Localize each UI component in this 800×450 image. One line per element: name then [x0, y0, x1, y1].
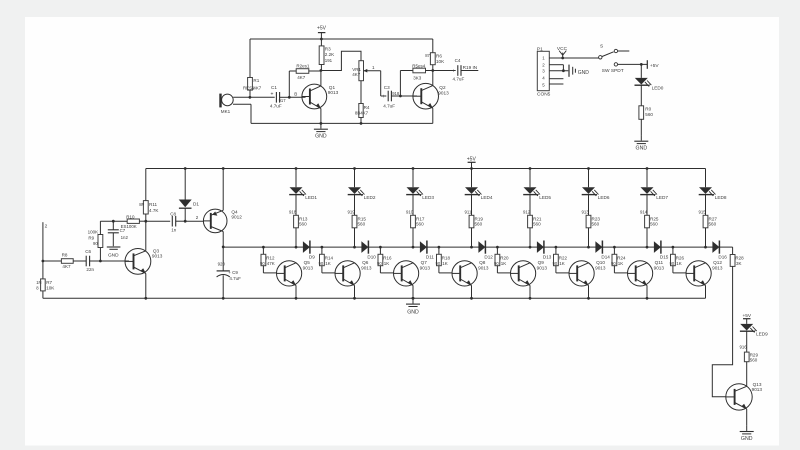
junction rail cell 2	[353, 167, 356, 170]
svg-text:C8: C8	[170, 211, 176, 216]
svg-text:100K: 100K	[88, 229, 99, 234]
resistor R12 47K	[262, 246, 265, 249]
svg-text:LED1: LED1	[305, 195, 317, 200]
svg-text:D9: D9	[309, 255, 315, 260]
svg-text:9013: 9013	[152, 254, 163, 259]
svg-text:911: 911	[465, 210, 472, 215]
svg-text:9013: 9013	[537, 265, 548, 270]
svg-text:920: 920	[218, 261, 226, 266]
power +5V marker (switch)	[646, 60, 648, 69]
wire emitter to ground rail	[471, 285, 473, 298]
wire Q4 emitter to rail	[222, 169, 224, 211]
svg-text:1K: 1K	[676, 261, 682, 266]
svg-text:C6: C6	[85, 249, 91, 254]
svg-text:90: 90	[93, 241, 98, 246]
resistor R22 47K	[555, 246, 558, 249]
svg-text:8P: 8P	[139, 202, 144, 207]
svg-text:C4: C4	[455, 58, 461, 63]
svg-text:191: 191	[325, 58, 333, 63]
svg-text:R27: R27	[709, 216, 718, 221]
transistor Q3 9013	[100, 260, 129, 262]
svg-text:919: 919	[348, 210, 356, 215]
junction collector node cell 2	[353, 246, 356, 249]
diode D11	[413, 246, 420, 248]
svg-text:90: 90	[553, 261, 558, 266]
transistor Q10 9013	[569, 261, 594, 286]
capacitor C9 4.7uF	[222, 247, 224, 271]
svg-text:1K: 1K	[618, 261, 624, 266]
wire Q1 emitter	[320, 109, 322, 124]
svg-text:9013: 9013	[361, 265, 372, 270]
capacitor C4 4.7uF output	[433, 70, 456, 72]
svg-text:90: 90	[319, 261, 324, 266]
svg-text:3K3: 3K3	[413, 76, 422, 81]
junction C1 / R2 / Q1 base	[288, 96, 291, 99]
wire emitter to ground rail	[412, 285, 414, 298]
svg-text:4.7uF: 4.7uF	[270, 104, 282, 109]
wire R28 to Q13 base	[712, 266, 732, 396]
svg-text:10K: 10K	[46, 286, 55, 291]
junction R10 / R11 / Q3 collector	[144, 220, 147, 223]
wire node segment	[486, 246, 530, 248]
junction mic / R1 / C1	[249, 96, 252, 99]
svg-text:R14: R14	[325, 256, 334, 261]
transistor Q12 9013	[686, 261, 711, 286]
wire node segment	[544, 246, 588, 248]
junction rail cell 6	[587, 167, 590, 170]
resistor R17 560	[412, 194, 414, 215]
svg-text:916: 916	[740, 344, 748, 349]
svg-text:2.2K: 2.2K	[325, 52, 335, 57]
junction collector node cell 1	[295, 246, 298, 249]
diode D9	[296, 246, 303, 248]
svg-text:3K: 3K	[736, 261, 742, 266]
svg-text:R9: R9	[88, 235, 94, 240]
resistor R9 100K	[99, 248, 101, 262]
svg-text:2: 2	[45, 223, 48, 229]
resistor R6 10K	[432, 39, 434, 53]
svg-text:VR1: VR1	[352, 67, 361, 72]
capacitor C8 1n	[146, 220, 170, 222]
svg-text:C1: C1	[271, 85, 277, 90]
svg-text:R17: R17	[416, 216, 425, 221]
svg-text:4.7uF: 4.7uF	[453, 77, 465, 82]
transistor Q8 9013	[452, 261, 477, 286]
svg-text:560: 560	[709, 222, 717, 227]
svg-text:910: 910	[406, 210, 414, 215]
transistor Q11 9013	[628, 261, 653, 286]
wire Q4 collector	[222, 232, 224, 247]
svg-text:10K: 10K	[436, 59, 445, 64]
wire Q2 emitter	[432, 108, 434, 123]
svg-text:R3: R3	[325, 46, 331, 51]
svg-text:9013: 9013	[752, 387, 763, 392]
resistor R3 2.2K	[320, 39, 322, 46]
svg-text:R2es1: R2es1	[296, 64, 310, 69]
svg-text:560: 560	[533, 222, 541, 227]
resistor R2 4K7	[288, 71, 290, 97]
svg-text:9013: 9013	[303, 265, 314, 270]
wire main +5V rail	[146, 168, 706, 170]
svg-text:560: 560	[475, 222, 483, 227]
svg-text:9013: 9013	[328, 90, 339, 95]
svg-text:R22: R22	[559, 256, 568, 261]
svg-text:918: 918	[392, 91, 400, 96]
diode D15	[647, 246, 654, 248]
wire mic return to ground rail	[250, 104, 252, 123]
svg-text:D15: D15	[660, 255, 669, 260]
wire feedback node	[100, 220, 127, 222]
svg-text:LED8: LED8	[715, 195, 727, 200]
svg-text:D10: D10	[367, 255, 376, 260]
wire D16 to R28	[720, 246, 733, 248]
capacitor C7 1n2	[112, 220, 115, 223]
junction rail cell 7	[646, 167, 649, 170]
transistor Q2 9013	[400, 95, 417, 97]
svg-text:D14: D14	[601, 255, 610, 260]
junction collector node cell 8	[704, 246, 707, 249]
svg-text:D11: D11	[426, 255, 435, 260]
resistor R27 560	[705, 194, 707, 215]
svg-text:MK1: MK1	[221, 109, 231, 114]
svg-text:90: 90	[611, 261, 616, 266]
svg-text:GND: GND	[578, 70, 590, 76]
svg-text:87: 87	[425, 53, 430, 58]
ground (main)	[412, 297, 415, 300]
LED LED2	[354, 169, 356, 188]
resistor R14 47K	[321, 246, 324, 249]
svg-text:R10: R10	[126, 214, 135, 219]
resistor R4 4K7	[360, 81, 362, 104]
resistor R11 4.7K	[145, 169, 147, 201]
svg-text:LED6: LED6	[598, 195, 610, 200]
junction R3 / Q1 collector / R2	[320, 69, 323, 72]
svg-text:9013: 9013	[595, 265, 606, 270]
resistor R13 560	[295, 194, 297, 215]
svg-text:918: 918	[289, 210, 297, 215]
junction input node	[42, 260, 45, 263]
svg-text:+ C9: + C9	[228, 270, 238, 275]
resistor R19 560	[471, 194, 473, 215]
junction R9 / Q3 base	[99, 260, 102, 263]
junction R5 / R6 / Q2 collector / C4	[431, 69, 434, 72]
svg-text:9012: 9012	[231, 215, 242, 220]
transistor Q5 9013	[277, 261, 302, 286]
svg-text:+5V: +5V	[742, 313, 751, 319]
svg-text:560: 560	[592, 222, 600, 227]
svg-text:R19 IN: R19 IN	[463, 65, 478, 70]
junction collector node cell 4	[470, 246, 473, 249]
diode D13	[530, 246, 537, 248]
svg-text:915: 915	[699, 210, 707, 215]
LED LED5	[529, 169, 531, 188]
junction rail cell 3	[412, 167, 415, 170]
junction rail cell 5	[529, 167, 532, 170]
svg-text:1N: 1N	[36, 280, 41, 285]
svg-text:LED4: LED4	[481, 195, 493, 200]
resistor R25 560	[646, 194, 648, 215]
junction C3 / R5 / Q2 base	[399, 95, 402, 98]
svg-text:1K: 1K	[384, 261, 390, 266]
svg-text:R4: R4	[364, 105, 370, 110]
svg-text:Q4: Q4	[231, 209, 238, 214]
svg-text:R26: R26	[676, 256, 685, 261]
wire emitter to ground rail	[705, 285, 707, 298]
resistor R15 560	[354, 194, 356, 215]
svg-text:9013: 9013	[654, 265, 665, 270]
wire to Q4 base, node 2	[185, 220, 203, 222]
LED LED3	[412, 169, 414, 188]
svg-text:LED7: LED7	[656, 195, 668, 200]
svg-text:GND: GND	[108, 252, 119, 258]
svg-text:+5V: +5V	[317, 26, 327, 32]
svg-text:1K: 1K	[559, 261, 565, 266]
diode D12	[472, 246, 479, 248]
wire node segment	[603, 246, 647, 248]
ground (preamp)	[320, 123, 322, 128]
resistor R7 10K	[41, 279, 46, 291]
svg-text:R18: R18	[442, 256, 451, 261]
svg-text:560: 560	[358, 222, 366, 227]
wire emitter to ground rail	[529, 285, 531, 298]
svg-text:CON5: CON5	[537, 91, 551, 97]
diode D1	[184, 167, 187, 170]
svg-text:4K7: 4K7	[297, 75, 306, 80]
svg-text:1K: 1K	[325, 261, 331, 266]
svg-text:LED9: LED9	[756, 331, 768, 336]
svg-text:+5V: +5V	[650, 63, 659, 69]
svg-text:912: 912	[523, 210, 531, 215]
svg-text:SW SPDT: SW SPDT	[602, 68, 624, 74]
svg-text:913: 913	[582, 210, 590, 215]
svg-text:9013: 9013	[712, 265, 723, 270]
transistor Q1 9013	[289, 96, 305, 98]
svg-text:GND: GND	[407, 310, 419, 316]
svg-text:4.7uF: 4.7uF	[383, 104, 395, 109]
svg-text:560: 560	[416, 222, 424, 227]
resistor R20 47K	[496, 246, 499, 249]
svg-text:1: 1	[372, 65, 375, 70]
svg-text:R11: R11	[149, 202, 158, 207]
svg-text:R6: R6	[436, 53, 442, 58]
svg-text:R12: R12	[266, 256, 275, 261]
junction collector node cell 7	[646, 246, 649, 249]
junction collector node cell 6	[587, 246, 590, 249]
svg-text:C3: C3	[384, 85, 390, 90]
diode D16	[706, 246, 713, 248]
svg-text:8B4K7: 8B4K7	[355, 111, 369, 116]
svg-text:4.7uF: 4.7uF	[229, 276, 241, 281]
svg-text:LED2: LED2	[364, 195, 376, 200]
svg-text:9013: 9013	[478, 265, 489, 270]
wire first node segment Q4 to cell 1	[223, 246, 263, 248]
svg-text:90: 90	[260, 261, 265, 266]
wire switch to +5V	[618, 63, 648, 65]
svg-text:9013: 9013	[420, 265, 431, 270]
resistor R23 560	[588, 194, 590, 215]
svg-text:GND: GND	[741, 436, 753, 442]
svg-text:1K: 1K	[442, 261, 448, 266]
svg-text:B: B	[294, 91, 297, 96]
potentiometer VR1 4K7	[359, 61, 364, 81]
svg-text:R28: R28	[735, 255, 744, 260]
svg-text:R8: R8	[62, 253, 68, 258]
svg-text:+: +	[382, 94, 385, 100]
ground (C7)	[107, 246, 121, 248]
resistor R8 4K7	[43, 260, 62, 262]
resistor R16 47K	[379, 246, 382, 249]
svg-text:R7: R7	[46, 280, 52, 285]
wire Q3 collector	[145, 221, 147, 251]
svg-text:GND: GND	[636, 146, 648, 152]
LED LED4	[471, 169, 473, 188]
svg-text:917: 917	[279, 98, 287, 103]
junction rail cell 4	[470, 167, 473, 170]
resistor R26 47K	[672, 246, 675, 249]
svg-text:GND: GND	[315, 134, 327, 140]
junction LED0 branch	[640, 63, 643, 66]
LED LED6	[588, 169, 590, 188]
resistor R0 560	[640, 85, 642, 106]
svg-text:R1: R1	[253, 78, 259, 83]
ground (Q13)	[746, 426, 748, 431]
resistor R18 47K	[438, 246, 441, 249]
wire VR1 wiper, node 1	[364, 70, 381, 72]
LED LED7	[646, 169, 648, 188]
svg-text:LED0: LED0	[652, 85, 664, 90]
svg-text:4K7: 4K7	[62, 264, 71, 269]
wire emitter to ground rail	[354, 285, 356, 298]
transistor Q7 9013	[394, 261, 419, 286]
wire main ground rail	[42, 222, 44, 298]
wire P1 pin 3	[549, 70, 568, 72]
wire node segment	[427, 246, 471, 248]
wire preamp ground rail	[251, 122, 433, 124]
svg-text:R0: R0	[645, 107, 651, 112]
ground (LED0)	[640, 135, 642, 140]
junction D1 / node 2 line	[184, 220, 187, 223]
wire preamp +5V rail	[250, 38, 433, 40]
transistor Q4 9012 (PNP)	[203, 209, 227, 233]
wire emitter to ground rail	[646, 285, 648, 298]
wire P1 pin 1	[549, 57, 598, 59]
svg-text:1K: 1K	[501, 261, 507, 266]
wire P1 pin 2	[549, 64, 563, 66]
svg-text:LED3: LED3	[422, 195, 434, 200]
resistor R21 560	[529, 194, 531, 215]
wire Q1 collector	[320, 71, 322, 86]
svg-text:R20: R20	[500, 256, 509, 261]
capacitor C1 4.7uF	[250, 96, 275, 98]
diode D14	[589, 246, 596, 248]
svg-text:R23: R23	[592, 216, 601, 221]
svg-text:560: 560	[750, 357, 758, 362]
svg-text:D16: D16	[718, 255, 727, 260]
svg-text:D1: D1	[193, 202, 199, 207]
svg-text:R25: R25	[650, 216, 659, 221]
LED LED8	[705, 169, 707, 188]
junction rail cell 1	[295, 167, 298, 170]
svg-text:4.7K: 4.7K	[149, 208, 159, 213]
svg-text:+5V: +5V	[467, 156, 477, 162]
diode D10	[355, 246, 362, 248]
svg-text:P1: P1	[537, 46, 543, 52]
wire Q3 emitter	[145, 273, 147, 298]
transistor Q9 9013	[510, 261, 535, 286]
LED LED9	[740, 324, 753, 331]
svg-text:4K7: 4K7	[352, 72, 361, 77]
wire Q2 collector	[432, 71, 434, 86]
svg-text:90: 90	[670, 261, 675, 266]
resistor R5 3K3	[399, 71, 401, 97]
svg-text:R19: R19	[475, 216, 484, 221]
wire R3 bottom to VR1 top	[321, 51, 361, 70]
junction collector node cell 3	[412, 246, 415, 249]
transistor Q6 9013	[335, 261, 360, 286]
svg-text:D12: D12	[484, 255, 493, 260]
resistor R24 47K	[613, 246, 616, 249]
power VCC marker	[561, 57, 564, 60]
transistor Q13 9013	[726, 384, 752, 410]
capacitor C3 4.7uF	[387, 91, 389, 102]
LED LED1	[295, 169, 297, 188]
microphone MK1	[219, 94, 221, 108]
svg-text:+: +	[452, 69, 455, 75]
svg-text:R15: R15	[358, 216, 367, 221]
wire node segment	[661, 246, 705, 248]
svg-text:R21: R21	[533, 216, 542, 221]
wire node segment	[369, 246, 413, 248]
svg-text:9013: 9013	[438, 90, 449, 95]
svg-text:22n: 22n	[86, 267, 94, 272]
svg-text:R24: R24	[617, 256, 626, 261]
svg-text:90: 90	[436, 261, 441, 266]
svg-text:560: 560	[299, 222, 307, 227]
svg-text:R16: R16	[383, 256, 392, 261]
svg-text:1n2: 1n2	[121, 235, 129, 240]
wire P1 pin 5	[549, 83, 563, 85]
wire Q13 emitter	[746, 409, 748, 426]
svg-text:560: 560	[650, 222, 658, 227]
svg-text:1n: 1n	[171, 228, 177, 233]
resistor R1	[249, 39, 251, 78]
ground (P1, rotated)	[568, 65, 570, 77]
svg-text:4K7: 4K7	[253, 85, 261, 90]
svg-text:914: 914	[640, 210, 648, 215]
svg-text:R13: R13	[299, 216, 308, 221]
wire node segment	[310, 246, 354, 248]
svg-text:90: 90	[494, 261, 499, 266]
capacitor C6 22n	[85, 256, 87, 267]
resistor R29 560	[746, 331, 748, 352]
svg-text:+: +	[271, 92, 274, 98]
resistor R28 3K	[730, 255, 735, 267]
connector P1 CON5	[537, 51, 549, 90]
wire emitter to ground rail	[588, 285, 590, 298]
wire emitter to ground rail	[295, 285, 297, 298]
resistor R10 100K	[127, 219, 139, 223]
wire P1 pin 4	[549, 78, 563, 80]
svg-text:S: S	[600, 43, 603, 49]
svg-text:47K: 47K	[267, 261, 275, 266]
svg-text:D13: D13	[543, 255, 552, 260]
svg-text:C7: C7	[120, 228, 126, 233]
LED LED0	[640, 64, 642, 78]
svg-text:LED5: LED5	[539, 195, 551, 200]
svg-text:R5es4: R5es4	[412, 63, 426, 68]
junction collector node cell 5	[529, 246, 532, 249]
svg-text:90: 90	[377, 261, 382, 266]
